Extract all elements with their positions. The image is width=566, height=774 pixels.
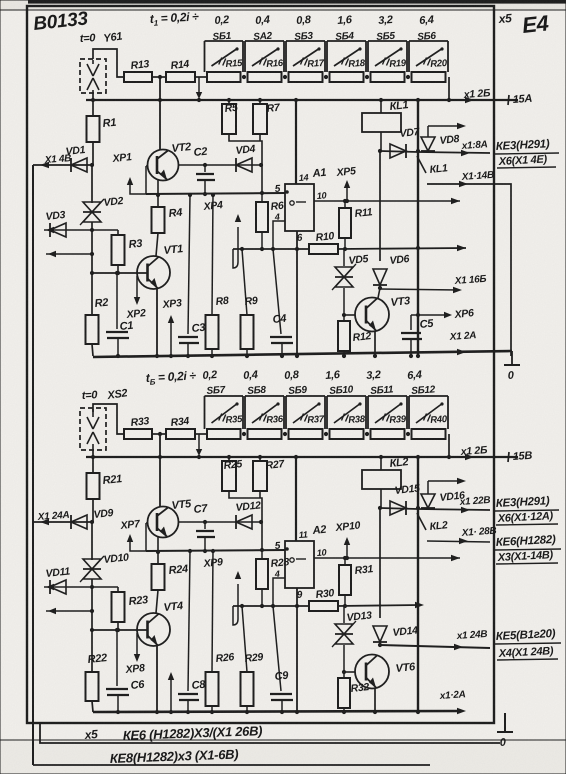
resistor R38	[330, 429, 364, 439]
resistor R31	[344, 558, 346, 565]
switch SБ11	[367, 396, 369, 429]
capacitor C5	[410, 315, 412, 330]
wire KE8 exit	[33, 764, 430, 766]
resistor R40	[412, 429, 446, 439]
resistor R4	[152, 207, 165, 233]
wire	[159, 77, 161, 150]
diode VD6	[373, 284, 387, 286]
resistor R37	[289, 429, 323, 439]
wire	[195, 76, 208, 78]
diode VD8	[418, 152, 490, 153]
wire X1 16B	[380, 289, 458, 290]
resistor R19	[371, 72, 405, 82]
wire pin10 line bottom	[314, 557, 460, 559]
diode VD16	[418, 509, 490, 510]
wire	[91, 165, 93, 203]
wire left rail	[32, 165, 34, 765]
resistor R29	[242, 606, 247, 672]
wire X1 4B	[33, 164, 92, 166]
wire VT5 emitter row	[178, 521, 229, 523]
switch SБ1	[204, 41, 206, 72]
switch KL2 contact	[417, 513, 426, 530]
diode VD10	[83, 559, 101, 569]
resistor R33	[124, 429, 152, 439]
resistor R21	[87, 473, 100, 499]
resistor R12	[342, 313, 346, 317]
wire pin9	[296, 588, 298, 712]
wire R10 line	[233, 248, 309, 250]
wire	[157, 537, 159, 564]
wire VT4 base	[92, 629, 147, 631]
diode VD2	[83, 202, 101, 212]
resistor R11	[344, 201, 346, 208]
resistor R36	[248, 429, 282, 439]
resistor R13	[124, 72, 152, 82]
wire	[374, 331, 376, 356]
transistor VT5	[148, 507, 179, 538]
switch SБ5	[367, 41, 369, 72]
connector XP10	[346, 541, 348, 558]
wire	[91, 522, 93, 560]
wire	[156, 233, 158, 256]
diode VD4	[229, 164, 261, 166]
resistor R35	[207, 429, 241, 439]
wire	[198, 434, 200, 453]
wire pin14	[295, 100, 297, 184]
wire	[170, 676, 172, 712]
capacitor C3	[188, 195, 190, 334]
resistor R9	[242, 249, 247, 315]
ground 0	[504, 364, 520, 366]
wire	[46, 253, 92, 255]
resistor R8	[212, 195, 213, 315]
wire	[93, 49, 124, 77]
wire X1 24B KE5	[380, 645, 490, 648]
resistor R3	[117, 230, 119, 235]
diode VD15	[380, 508, 418, 509]
switch SБ4	[326, 41, 328, 72]
diode VD7	[380, 151, 418, 152]
transistor VT4	[137, 613, 170, 646]
wire	[156, 590, 158, 613]
resistor R34	[166, 429, 195, 439]
wire	[92, 93, 94, 116]
diode VD13	[343, 606, 345, 623]
wire VT1 base	[92, 272, 147, 274]
resistor R27	[259, 457, 261, 461]
relay KL1 coil	[380, 100, 382, 113]
resistor R39	[371, 429, 405, 439]
connector XP8	[136, 633, 138, 658]
connector XS2 contact	[80, 408, 106, 450]
resistor R26	[212, 551, 213, 672]
wire	[229, 491, 262, 550]
wire	[378, 288, 380, 298]
switch SБ12	[408, 396, 410, 429]
wire	[344, 671, 355, 673]
transistor VT3	[355, 298, 389, 332]
wire	[92, 450, 94, 473]
resistor R5	[228, 100, 230, 104]
switch SБ6	[408, 41, 410, 72]
capacitor C6	[116, 630, 118, 686]
switch SБ9	[285, 396, 287, 429]
switch KL1 contact	[417, 156, 426, 173]
resistor R7	[259, 100, 261, 104]
wire X1 2B bus	[86, 99, 518, 101]
connector XP3	[170, 319, 172, 356]
wire pin4	[273, 221, 285, 249]
resistor R6	[261, 195, 263, 202]
resistor R14	[166, 72, 195, 82]
wire	[91, 579, 93, 630]
wire VT4 emitter	[156, 645, 158, 712]
op-amp U A2	[285, 541, 314, 588]
wire	[157, 180, 159, 207]
wire KL2 branch	[379, 508, 381, 618]
diode VD11	[44, 586, 118, 588]
wire	[195, 433, 208, 435]
wire	[152, 76, 166, 78]
wire	[92, 499, 94, 522]
wire	[229, 134, 262, 193]
wire	[448, 434, 450, 457]
ground 0 bottom	[504, 713, 506, 731]
wire VT1 emitter	[156, 288, 158, 356]
wire	[93, 404, 124, 434]
resistor R2	[91, 273, 93, 315]
wire zero bus top half	[93, 351, 512, 357]
wire	[344, 314, 355, 316]
wire pin6	[296, 231, 298, 356]
resistor R10	[309, 244, 338, 254]
capacitor C4	[273, 249, 281, 334]
resistor R32	[342, 670, 346, 674]
connector XP2	[136, 276, 138, 301]
relay KL2 coil	[380, 457, 382, 470]
wire	[448, 77, 450, 100]
resistor R25	[228, 457, 230, 461]
transistor VT6	[355, 655, 389, 689]
resistor R15	[207, 72, 241, 82]
wire	[198, 77, 200, 96]
connector Y61 contact	[80, 59, 106, 93]
wire pin5 line	[146, 193, 285, 194]
switch SБ10	[326, 396, 328, 429]
switch SБ3	[285, 41, 287, 72]
wire	[91, 222, 93, 273]
switch SБ7	[204, 396, 206, 429]
wire X1 2B bus bottom	[86, 456, 518, 458]
wire	[152, 433, 166, 435]
wire zero bus bottom half	[93, 711, 462, 712]
wire main right bus	[417, 100, 419, 356]
capacitor C7	[204, 522, 206, 529]
wire	[428, 480, 462, 482]
resistor R30	[309, 601, 338, 611]
transistor VT2	[148, 150, 179, 181]
capacitor C8	[188, 551, 190, 691]
wire	[374, 688, 376, 712]
border frame	[28, 0, 566, 4]
diode VD1	[70, 158, 72, 172]
wire	[159, 434, 161, 507]
resistor R18	[330, 72, 364, 82]
wire VT2 emitter row	[178, 164, 229, 166]
switch SА2	[244, 41, 246, 72]
capacitor C9	[273, 606, 281, 691]
diode VD5	[343, 249, 345, 266]
wire pin11	[295, 457, 297, 541]
resistor R24	[152, 564, 165, 590]
diode VD14	[373, 641, 387, 643]
wire KL1 branch	[379, 151, 381, 261]
wire	[46, 610, 92, 612]
wire pin10 line	[314, 200, 460, 202]
resistor R22	[91, 630, 93, 672]
diode VD3	[44, 229, 118, 231]
op-amp U A1	[285, 184, 314, 231]
wire X1 24A	[33, 521, 92, 523]
transistor VT1	[137, 256, 170, 289]
wire	[92, 142, 94, 165]
diode VD9	[70, 515, 72, 529]
diode VD12	[229, 521, 261, 523]
resistor R28	[261, 552, 263, 559]
wire R30 line	[233, 605, 309, 607]
capacitor C1	[116, 273, 118, 329]
resistor R20	[412, 72, 446, 82]
wire KE6 exit	[40, 723, 500, 743]
capacitor C2	[204, 165, 206, 172]
connector XP5	[346, 184, 348, 201]
resistor R1	[87, 116, 100, 142]
resistor R23	[117, 587, 119, 592]
wire pin5 line bottom	[146, 550, 285, 551]
wire	[428, 125, 462, 127]
resistor R17	[289, 72, 323, 82]
wire pin4 bottom	[273, 578, 285, 606]
connector XP6	[411, 314, 448, 316]
switch SБ8	[244, 396, 246, 429]
wire main right bus bottom	[417, 457, 419, 712]
resistor R16	[248, 72, 282, 82]
